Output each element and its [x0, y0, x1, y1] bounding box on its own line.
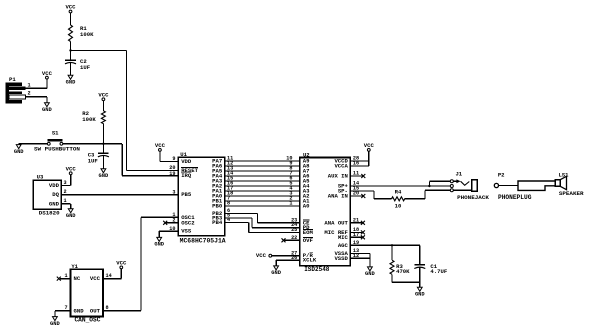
- svg-text:S1: S1: [52, 130, 59, 137]
- svg-text:GND: GND: [49, 200, 60, 207]
- svg-text:11: 11: [353, 171, 359, 177]
- svg-text:GND: GND: [271, 270, 281, 276]
- svg-text:19: 19: [353, 240, 359, 246]
- svg-text:VCCA: VCCA: [334, 163, 348, 170]
- svg-text:MIC: MIC: [338, 234, 349, 241]
- svg-text:LS1: LS1: [558, 171, 569, 178]
- svg-text:ANA IN: ANA IN: [328, 193, 348, 200]
- svg-text:17: 17: [353, 232, 359, 238]
- svg-text:VDD: VDD: [181, 158, 192, 165]
- svg-text:16: 16: [353, 161, 359, 167]
- svg-text:VSS: VSS: [181, 228, 192, 235]
- svg-text:GND: GND: [74, 307, 85, 314]
- svg-text:GND: GND: [154, 242, 164, 248]
- svg-text:26: 26: [291, 255, 297, 261]
- svg-text:ANA OUT: ANA OUT: [324, 219, 348, 226]
- svg-text:12: 12: [353, 253, 359, 259]
- svg-text:2: 2: [64, 189, 67, 195]
- svg-text:VDD: VDD: [49, 182, 60, 189]
- svg-text:SPEAKER: SPEAKER: [559, 190, 584, 197]
- svg-text:SW PUSHBUTTON: SW PUSHBUTTON: [34, 145, 80, 152]
- svg-text:XCLK: XCLK: [303, 257, 317, 264]
- svg-text:GND: GND: [42, 107, 52, 113]
- svg-text:VCC: VCC: [65, 4, 76, 11]
- svg-text:7: 7: [64, 305, 67, 311]
- svg-text:8: 8: [227, 201, 230, 207]
- svg-text:22: 22: [291, 235, 297, 241]
- svg-text:100K: 100K: [80, 31, 94, 38]
- svg-text:MC68HC705J1A: MC68HC705J1A: [180, 237, 226, 244]
- svg-text:3: 3: [64, 180, 67, 186]
- svg-text:IRQ: IRQ: [181, 172, 192, 179]
- svg-text:R4: R4: [395, 189, 402, 196]
- svg-text:VSSD: VSSD: [334, 255, 348, 262]
- svg-text:VCC: VCC: [98, 92, 109, 99]
- svg-text:P2: P2: [498, 172, 505, 179]
- svg-text:1: 1: [289, 201, 292, 207]
- svg-text:10: 10: [395, 202, 402, 209]
- svg-text:U2: U2: [303, 151, 310, 158]
- svg-text:EOM: EOM: [303, 229, 314, 236]
- svg-text:1: 1: [64, 198, 67, 204]
- svg-text:VCC: VCC: [90, 275, 101, 282]
- svg-text:GND: GND: [415, 292, 425, 298]
- svg-text:PB0: PB0: [212, 203, 223, 210]
- svg-text:A0: A0: [303, 203, 310, 210]
- svg-text:ISD2548: ISD2548: [304, 266, 330, 273]
- svg-text:U1: U1: [180, 151, 187, 158]
- svg-text:VCC: VCC: [66, 166, 77, 173]
- svg-text:VCC: VCC: [364, 142, 375, 149]
- svg-text:4.7UF: 4.7UF: [430, 268, 447, 275]
- svg-text:19: 19: [169, 171, 175, 177]
- svg-text:21: 21: [353, 217, 359, 223]
- svg-text:PB5: PB5: [181, 191, 192, 198]
- svg-text:GND: GND: [50, 321, 60, 327]
- svg-text:OVF: OVF: [303, 237, 314, 244]
- svg-text:VCC: VCC: [116, 260, 127, 267]
- svg-text:20: 20: [353, 191, 359, 197]
- svg-text:U3: U3: [37, 174, 44, 181]
- svg-text:14: 14: [106, 273, 112, 279]
- svg-text:DS1820: DS1820: [39, 209, 60, 216]
- svg-text:PHONEJACK: PHONEJACK: [457, 194, 489, 201]
- svg-text:DQ: DQ: [52, 191, 59, 198]
- svg-text:1UF: 1UF: [80, 64, 91, 71]
- svg-text:OUT: OUT: [90, 307, 101, 314]
- svg-text:P1: P1: [9, 76, 16, 83]
- svg-text:VCC: VCC: [42, 70, 53, 77]
- svg-text:4: 4: [227, 217, 230, 223]
- svg-text:NC: NC: [74, 275, 81, 282]
- svg-text:25: 25: [291, 227, 297, 233]
- svg-text:GND: GND: [66, 80, 76, 86]
- svg-text:100K: 100K: [82, 116, 96, 123]
- svg-text:2: 2: [28, 91, 31, 97]
- svg-text:1: 1: [64, 273, 67, 279]
- svg-text:PHONEPLUG: PHONEPLUG: [498, 194, 532, 201]
- svg-text:1UF: 1UF: [88, 157, 99, 164]
- svg-text:1: 1: [28, 82, 31, 88]
- svg-text:OSC2: OSC2: [181, 219, 195, 226]
- svg-text:470K: 470K: [396, 268, 410, 275]
- svg-text:GND: GND: [14, 149, 24, 155]
- svg-text:PB4: PB4: [212, 219, 223, 226]
- svg-text:AGC: AGC: [338, 242, 349, 249]
- svg-text:3: 3: [172, 189, 175, 195]
- svg-text:VCC: VCC: [256, 252, 267, 259]
- svg-text:9: 9: [172, 156, 175, 162]
- svg-text:Y1: Y1: [71, 263, 78, 270]
- svg-text:J1: J1: [455, 171, 462, 178]
- svg-text:CAN_OSC: CAN_OSC: [74, 317, 100, 324]
- svg-text:GND: GND: [99, 173, 109, 179]
- svg-text:VCC: VCC: [155, 142, 166, 149]
- svg-text:8: 8: [106, 305, 109, 311]
- svg-text:GND: GND: [66, 213, 76, 219]
- svg-text:2: 2: [172, 218, 175, 224]
- svg-text:10: 10: [169, 226, 175, 232]
- svg-text:GND: GND: [365, 271, 375, 277]
- svg-text:AUX IN: AUX IN: [328, 173, 348, 180]
